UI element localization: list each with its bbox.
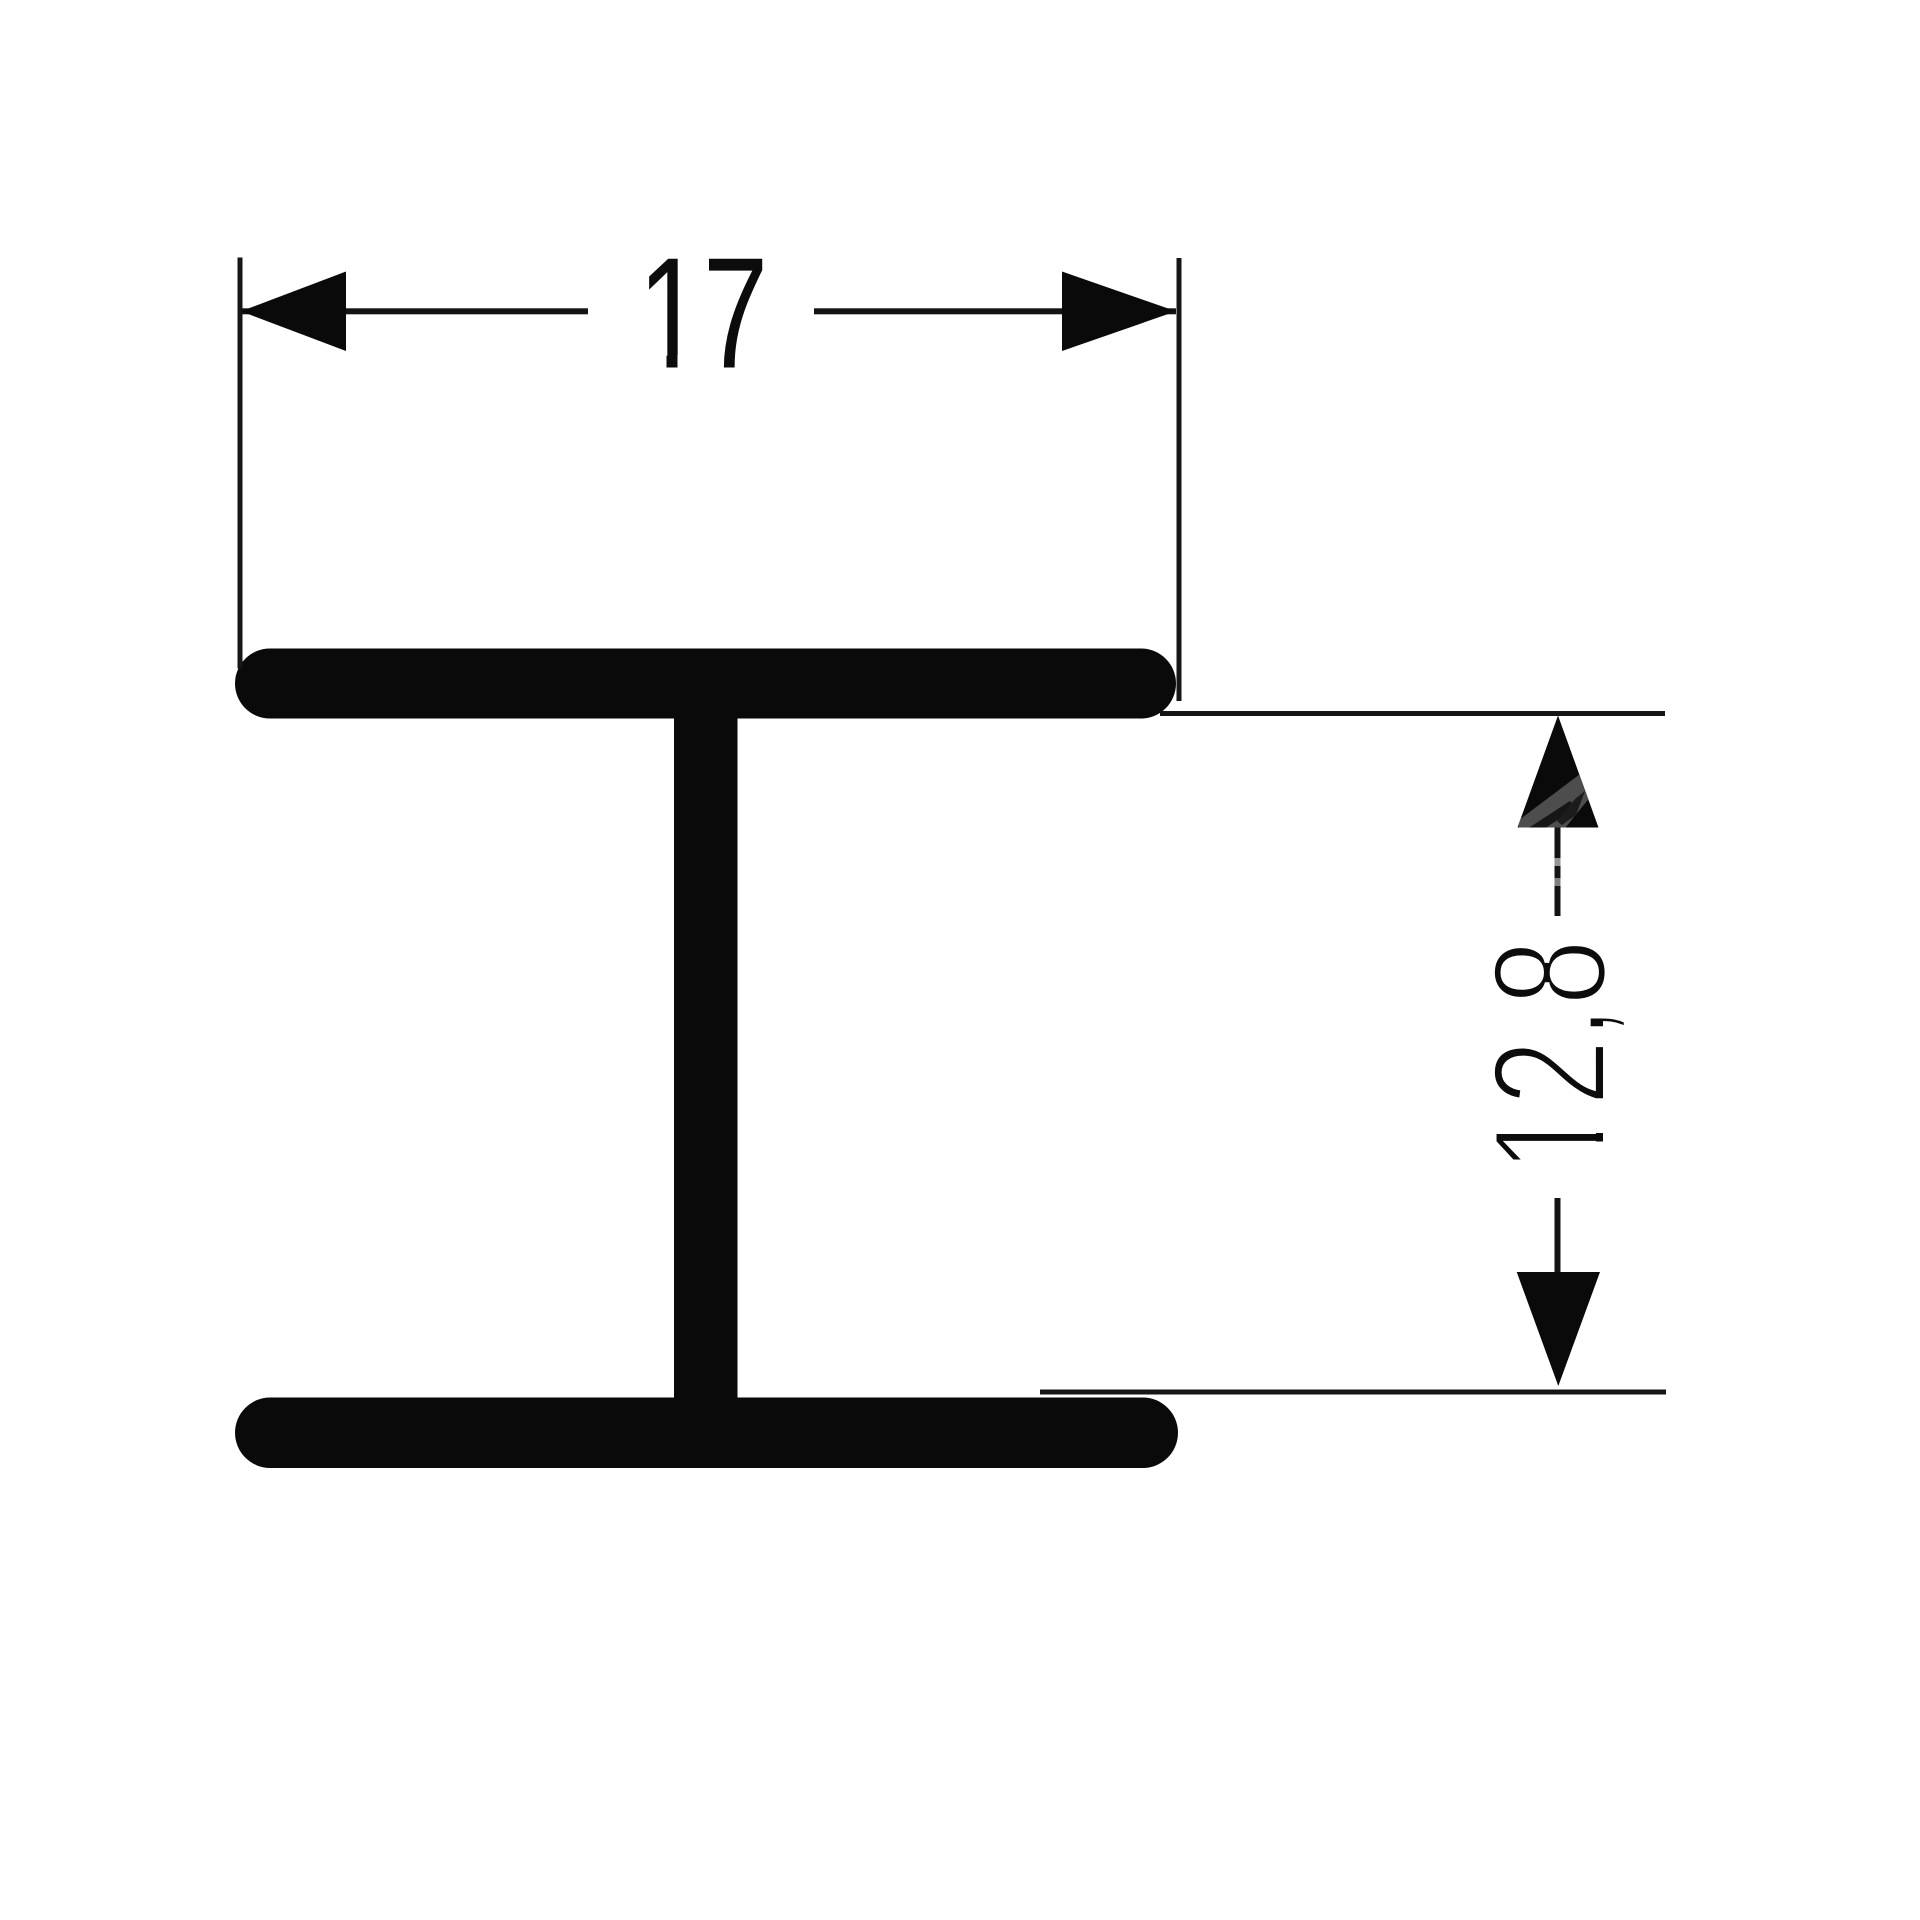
- extension line left of dimension 17: [238, 258, 243, 669]
- bottom flange: [235, 1398, 1178, 1469]
- arrowhead up of dimension 12,8: [1518, 716, 1599, 828]
- web: [674, 700, 738, 1410]
- svg-text:12,8: 12,8: [1460, 939, 1641, 1173]
- arrowhead right of dimension 17: [1062, 272, 1176, 352]
- watermark grey band on up arrowhead: [1515, 768, 1604, 838]
- dimension line 17 left segment: [241, 308, 588, 314]
- serif mask on digit 1 of text 12,8: [1596, 1112, 1606, 1164]
- dimension line 12,8 upper segment: [1554, 824, 1562, 916]
- extension line bottom of dimension 12,8: [1040, 1390, 1666, 1395]
- extension line top of dimension 12,8: [1160, 711, 1665, 716]
- svg-text:17: 17: [638, 225, 768, 401]
- dimension line 12,8 lower segment: [1555, 1198, 1561, 1274]
- extension line right of dimension 17: [1177, 258, 1182, 701]
- dimension line 17 right segment: [814, 308, 1176, 314]
- serif mask on digit 1 of text 17: [645, 355, 699, 369]
- arrowhead down of dimension 12,8: [1517, 1272, 1600, 1386]
- arrowhead left of dimension 17: [241, 272, 346, 352]
- top flange: [235, 649, 1176, 719]
